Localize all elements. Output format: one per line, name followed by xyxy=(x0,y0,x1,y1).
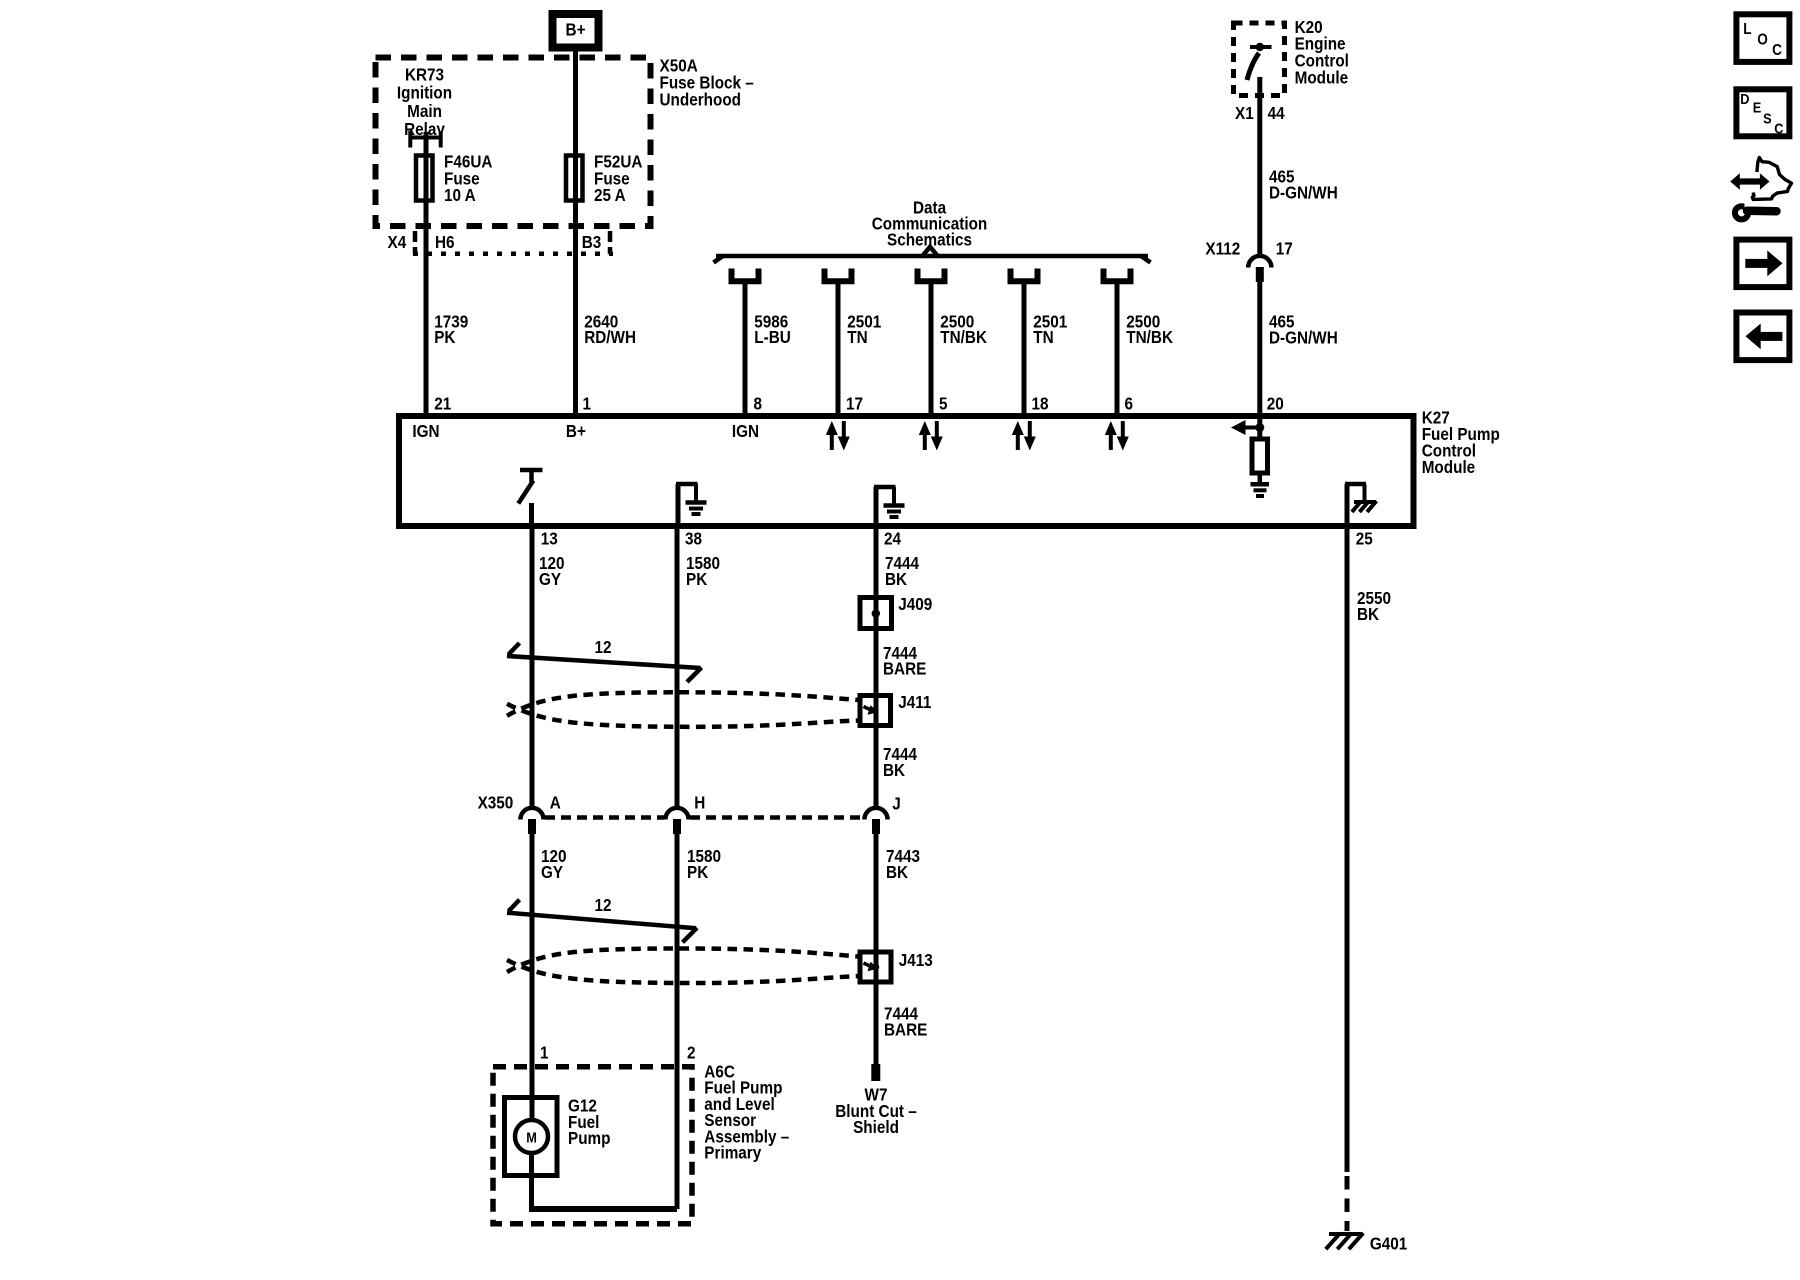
svg-text:1: 1 xyxy=(583,393,592,413)
svg-text:12: 12 xyxy=(594,637,611,657)
svg-text:H: H xyxy=(694,793,705,813)
svg-text:L-BU: L-BU xyxy=(754,327,791,347)
svg-text:Module: Module xyxy=(1295,67,1348,87)
svg-text:44: 44 xyxy=(1268,103,1286,123)
svg-text:6: 6 xyxy=(1125,393,1134,413)
svg-text:Primary: Primary xyxy=(704,1142,762,1162)
svg-text:10 A: 10 A xyxy=(444,185,476,205)
svg-text:M: M xyxy=(526,1128,537,1145)
svg-text:TN/BK: TN/BK xyxy=(940,327,987,347)
svg-text:BK: BK xyxy=(886,862,908,882)
svg-text:X1: X1 xyxy=(1235,103,1254,123)
svg-text:PK: PK xyxy=(687,862,708,882)
svg-text:O: O xyxy=(1757,32,1768,49)
svg-text:J: J xyxy=(892,793,901,813)
svg-text:BARE: BARE xyxy=(884,1019,927,1039)
svg-text:S: S xyxy=(1763,109,1772,126)
svg-text:21: 21 xyxy=(434,393,451,413)
svg-text:Underhood: Underhood xyxy=(660,89,742,109)
svg-text:X112: X112 xyxy=(1205,238,1240,258)
svg-text:D-GN/WH: D-GN/WH xyxy=(1269,182,1338,202)
svg-text:IGN: IGN xyxy=(412,421,439,441)
svg-text:1: 1 xyxy=(540,1042,549,1062)
svg-text:5: 5 xyxy=(939,393,948,413)
svg-text:L: L xyxy=(1743,21,1751,38)
svg-text:20: 20 xyxy=(1267,393,1284,413)
svg-text:17: 17 xyxy=(1276,238,1293,258)
svg-text:BK: BK xyxy=(883,760,905,780)
svg-text:C: C xyxy=(1772,42,1782,59)
svg-text:RD/WH: RD/WH xyxy=(584,327,636,347)
svg-text:E: E xyxy=(1753,98,1762,115)
svg-text:J411: J411 xyxy=(898,692,931,712)
svg-text:D-GN/WH: D-GN/WH xyxy=(1269,327,1338,347)
svg-text:TN/BK: TN/BK xyxy=(1126,327,1173,347)
svg-text:17: 17 xyxy=(846,393,863,413)
svg-text:H6: H6 xyxy=(435,232,455,252)
svg-text:TN: TN xyxy=(1033,327,1053,347)
svg-text:D: D xyxy=(1740,90,1749,107)
svg-text:24: 24 xyxy=(884,528,902,548)
svg-text:18: 18 xyxy=(1032,393,1049,413)
svg-text:13: 13 xyxy=(541,528,558,548)
svg-text:C: C xyxy=(1774,119,1783,136)
svg-text:B+: B+ xyxy=(566,19,586,39)
svg-text:X4: X4 xyxy=(388,232,407,252)
svg-text:25: 25 xyxy=(1356,528,1373,548)
svg-text:IGN: IGN xyxy=(732,421,759,441)
svg-text:Shield: Shield xyxy=(853,1117,899,1137)
svg-text:G401: G401 xyxy=(1370,1233,1407,1253)
svg-text:PK: PK xyxy=(686,569,707,589)
svg-text:A: A xyxy=(550,793,561,813)
svg-text:B+: B+ xyxy=(566,421,586,441)
svg-text:8: 8 xyxy=(754,393,763,413)
svg-text:GY: GY xyxy=(539,569,561,589)
svg-text:Module: Module xyxy=(1422,457,1475,477)
svg-text:BK: BK xyxy=(1357,604,1379,624)
svg-text:2: 2 xyxy=(687,1042,696,1062)
svg-text:PK: PK xyxy=(434,327,455,347)
svg-text:B3: B3 xyxy=(582,232,602,252)
svg-text:J409: J409 xyxy=(898,594,932,614)
svg-text:38: 38 xyxy=(685,528,702,548)
svg-text:J413: J413 xyxy=(899,950,933,970)
svg-text:BARE: BARE xyxy=(883,658,926,678)
svg-text:GY: GY xyxy=(541,862,563,882)
svg-text:X350: X350 xyxy=(478,793,514,813)
svg-text:BK: BK xyxy=(885,569,907,589)
svg-text:Pump: Pump xyxy=(568,1128,610,1148)
svg-text:TN: TN xyxy=(847,327,867,347)
svg-text:12: 12 xyxy=(594,895,611,915)
svg-text:25 A: 25 A xyxy=(594,185,626,205)
